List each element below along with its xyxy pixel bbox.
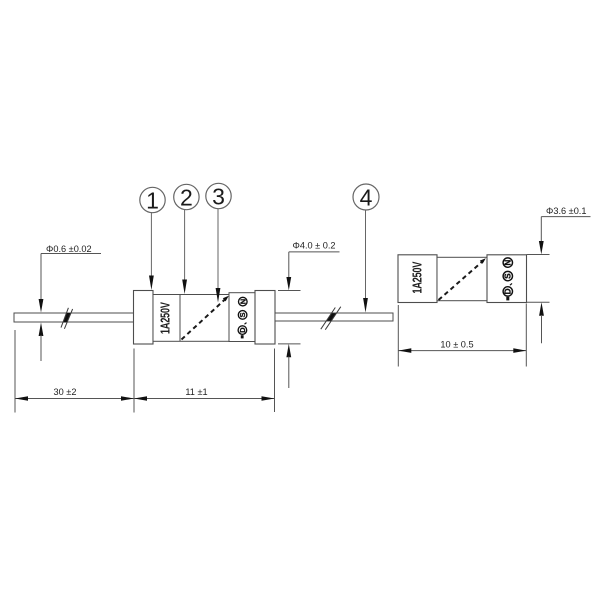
svg-text:3: 3 [212, 184, 225, 210]
left end cap [134, 291, 154, 345]
cert mark N (front view) [238, 297, 247, 306]
side view body [437, 257, 487, 300]
right end cap [255, 291, 275, 345]
svg-text:1A250V: 1A250V [159, 301, 173, 334]
svg-text:11 ±1: 11 ±1 [185, 387, 207, 397]
svg-text:N: N [503, 259, 512, 265]
dimension Φ4.0 ±0.2 (cap diameter) [278, 241, 340, 389]
dimension 11 ±1 (body length) [134, 349, 275, 413]
cert mark S (front view) [238, 311, 247, 320]
leader line balloon 3 [216, 209, 221, 303]
svg-text:N: N [238, 299, 247, 304]
balloon 2 [174, 184, 199, 210]
svg-text:4: 4 [360, 185, 373, 211]
cert mark D with tail (front view) [238, 323, 247, 339]
svg-text:30 ±2: 30 ±2 [54, 387, 77, 397]
dimension 10 ±0.5 (side view length) [398, 304, 526, 367]
dashed break-direction line (side view) [439, 258, 486, 300]
leader line balloon 2 [182, 210, 187, 294]
side view right cap with marks [487, 255, 527, 303]
dimension 30 ±2 (lead length) [15, 330, 134, 413]
svg-text:10 ± 0.5: 10 ± 0.5 [440, 340, 473, 350]
break symbol on left lead [61, 308, 73, 329]
svg-text:D: D [238, 327, 247, 333]
balloon 4 [353, 184, 379, 211]
leader line balloon 1 [149, 213, 154, 290]
balloon 1 [140, 187, 165, 213]
svg-text:S: S [503, 273, 512, 279]
lead wire right [275, 313, 393, 321]
svg-text:Φ4.0 ± 0.2: Φ4.0 ± 0.2 [293, 241, 336, 251]
svg-text:2: 2 [180, 185, 193, 211]
balloon 3 [206, 183, 231, 209]
cert mark D with tail (side view) [503, 283, 512, 300]
cert mark N (side view) [503, 258, 512, 267]
lead wire left [14, 313, 134, 322]
svg-text:1A250V: 1A250V [411, 261, 425, 294]
leader line balloon 4 [363, 210, 368, 313]
svg-text:Φ3.6 ±0.1: Φ3.6 ±0.1 [546, 206, 586, 216]
dimension Φ3.6 ±0.1 (side view diameter) [527, 206, 591, 343]
svg-text:1: 1 [146, 188, 159, 214]
dimension Φ0.6 ±0.02 (lead diameter) [39, 244, 101, 361]
break symbol on right lead [321, 307, 341, 330]
dashed break-direction line (front view) [182, 296, 229, 340]
side view left cap [398, 255, 437, 303]
body divider line [179, 295, 181, 342]
svg-text:D: D [503, 288, 512, 294]
svg-text:S: S [238, 312, 247, 317]
svg-text:Φ0.6 ±0.02: Φ0.6 ±0.02 [46, 244, 92, 254]
fuse body [153, 295, 229, 342]
marking band [229, 293, 255, 342]
cert mark S (side view) [503, 271, 512, 280]
